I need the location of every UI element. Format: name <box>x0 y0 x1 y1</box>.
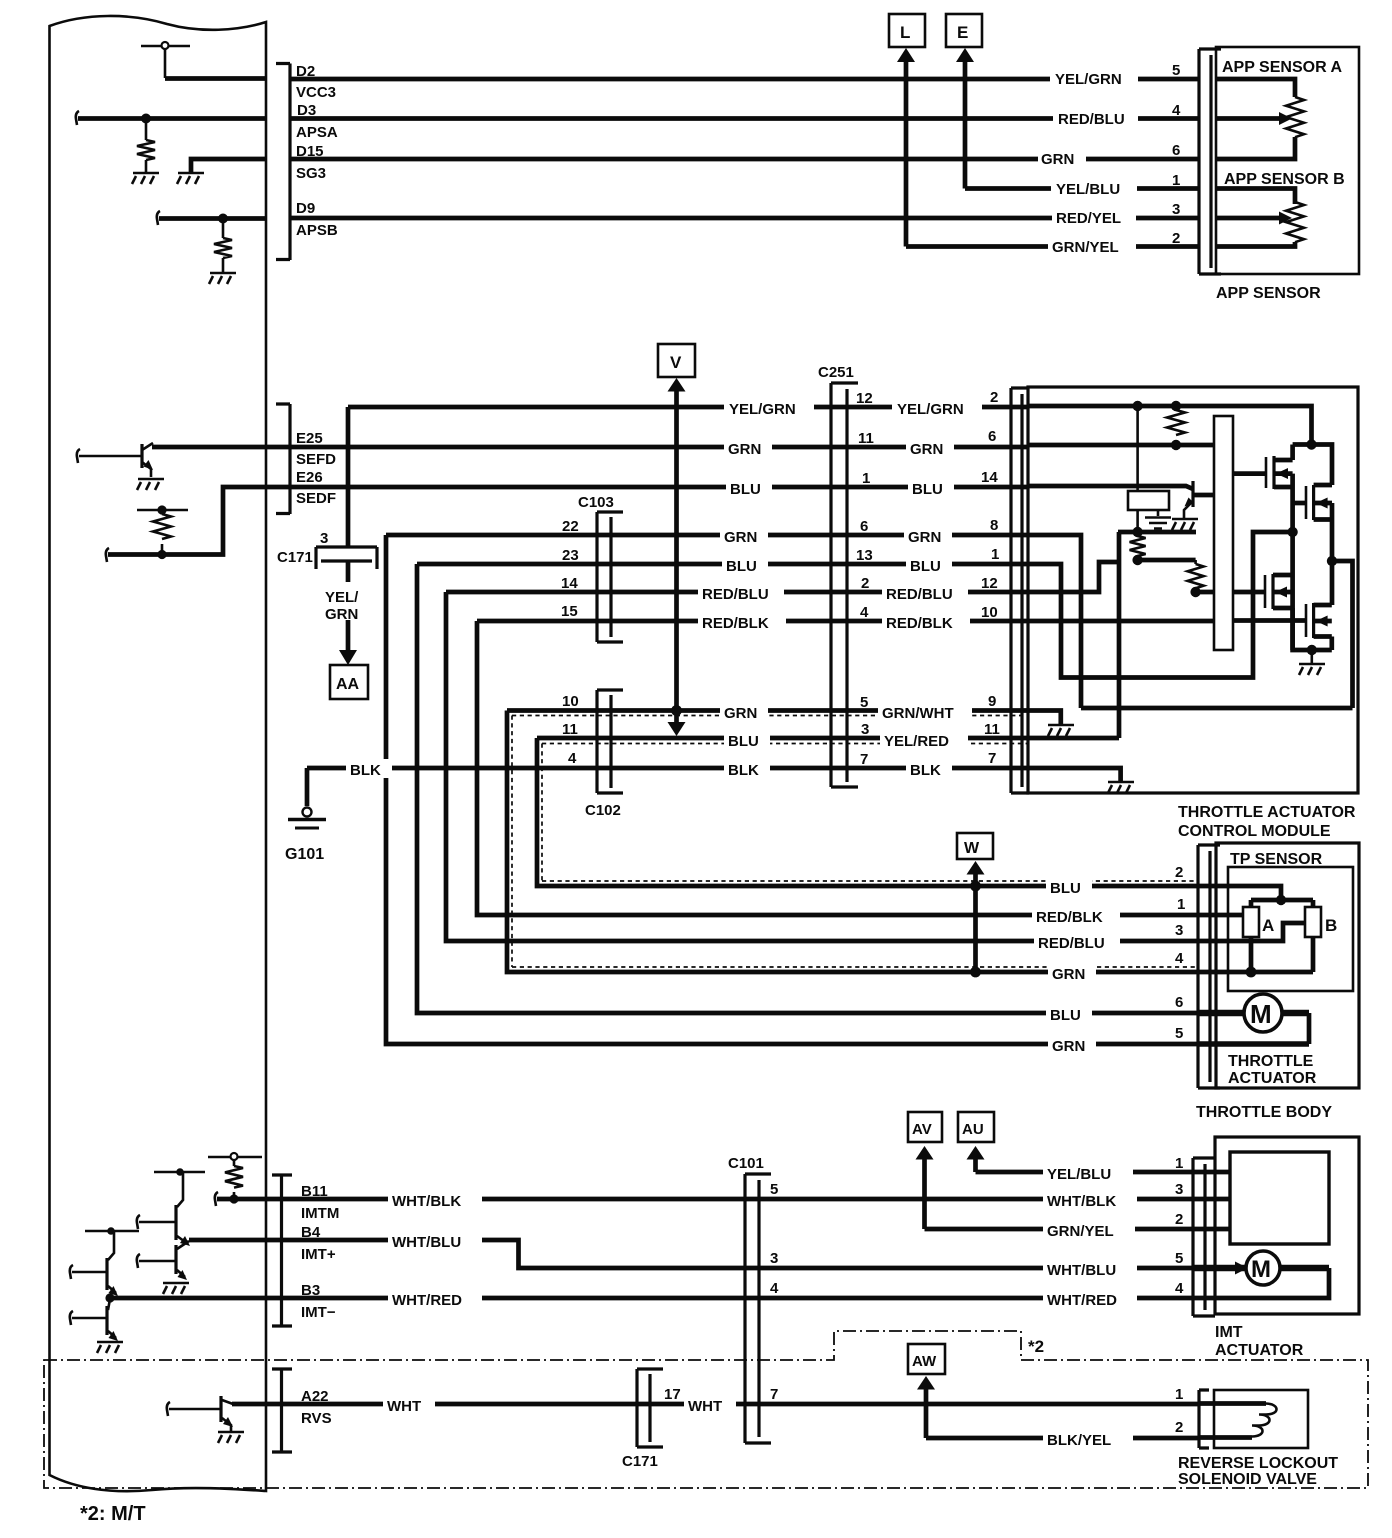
wire Q2 source down <box>1330 503 1335 605</box>
wire solenoid top <box>1199 1401 1266 1406</box>
wire to connector W with arrow <box>967 861 985 875</box>
svg-text:7: 7 <box>988 750 996 767</box>
svg-text:AU: AU <box>962 1121 984 1138</box>
svg-text:SEDF: SEDF <box>296 490 336 507</box>
label WHT/RED <box>1043 1289 1137 1308</box>
label BLU (motor pin6) <box>1046 1004 1092 1023</box>
TP SENSOR inner box <box>1228 867 1353 991</box>
svg-text:7: 7 <box>860 751 868 768</box>
MOSFET Q4 <box>1306 603 1332 638</box>
wiper arrow APP sensor B <box>1216 216 1281 221</box>
label GRN <box>904 526 952 545</box>
svg-text:AW: AW <box>912 1353 937 1370</box>
transistor T1 (IMTM driver) <box>137 1168 205 1246</box>
svg-text:C251: C251 <box>818 364 854 381</box>
connector AW box <box>908 1344 945 1374</box>
connector E box <box>946 14 982 47</box>
svg-text:10: 10 <box>562 693 579 710</box>
relay coil box <box>1128 491 1169 510</box>
label RED/BLK <box>1032 906 1120 925</box>
wire solenoid bottom <box>1199 1435 1252 1440</box>
transistor Q (SEFD driver) inside ECM <box>77 443 164 490</box>
svg-text:TP SENSOR: TP SENSOR <box>1230 851 1323 868</box>
svg-text:D9: D9 <box>296 200 315 217</box>
wire B3/IMT- row <box>109 1296 1192 1301</box>
resistor pull-down on APSB <box>222 219 225 273</box>
label BLU <box>726 478 772 497</box>
connector bracket control module <box>1011 388 1029 793</box>
wire motor output right <box>1332 561 1353 708</box>
connector bracket ECM B-group <box>272 1175 292 1326</box>
motor IMT actuator <box>1193 1251 1329 1298</box>
svg-text:2: 2 <box>990 389 998 406</box>
label GRN (TP pin4) <box>1048 963 1096 982</box>
node junction <box>1172 402 1181 411</box>
svg-text:*2: M/T: *2: M/T <box>80 1503 146 1525</box>
svg-text:THROTTLE BODY: THROTTLE BODY <box>1196 1104 1332 1121</box>
svg-text:4: 4 <box>1175 1280 1184 1297</box>
svg-text:5: 5 <box>1172 62 1180 79</box>
svg-text:WHT/BLU: WHT/BLU <box>1047 1262 1116 1279</box>
resistor R (module mid-left) <box>1136 534 1139 560</box>
connector V box <box>658 344 695 377</box>
svg-text:E25: E25 <box>296 430 323 447</box>
svg-text:22: 22 <box>562 518 579 535</box>
wire to connector V with arrows <box>668 378 686 392</box>
svg-text:GRN/WHT: GRN/WHT <box>882 705 954 722</box>
svg-text:*2: *2 <box>1028 1337 1044 1356</box>
svg-text:WHT/RED: WHT/RED <box>392 1292 462 1309</box>
node junction B3 <box>106 1294 114 1302</box>
svg-text:3: 3 <box>1175 1181 1183 1198</box>
svg-text:15: 15 <box>561 603 578 620</box>
wire YEL/GRN below C171 <box>346 561 351 582</box>
wire pin1 BLU path in module <box>1029 532 1293 678</box>
svg-text:10: 10 <box>981 604 998 621</box>
wire ground stub <box>1311 650 1314 663</box>
wire YEL/BLU to IMT pin 1 <box>976 1170 1193 1175</box>
svg-text:YEL/GRN: YEL/GRN <box>1055 71 1122 88</box>
svg-text:WHT: WHT <box>387 1398 421 1415</box>
wire to connector AV with arrow <box>916 1146 934 1160</box>
svg-text:2: 2 <box>861 575 869 592</box>
label GRN (shielded) <box>720 701 768 720</box>
svg-text:YEL/GRN: YEL/GRN <box>897 401 964 418</box>
label RED/BLK <box>882 612 970 631</box>
motor throttle actuator <box>1198 994 1309 1044</box>
wire pin9 GRN/WHT to ground <box>1029 711 1061 725</box>
node junction <box>1133 528 1142 537</box>
svg-text:E26: E26 <box>296 469 323 486</box>
transistor T4 <box>70 1299 123 1353</box>
svg-text:AV: AV <box>912 1121 932 1138</box>
connector L box <box>889 14 925 47</box>
label GRN/YEL <box>1043 1220 1135 1239</box>
svg-text:WHT/BLU: WHT/BLU <box>392 1234 461 1251</box>
svg-text:4: 4 <box>568 750 577 767</box>
svg-text:17: 17 <box>664 1386 681 1403</box>
node junction <box>1172 441 1181 450</box>
svg-text:C102: C102 <box>585 802 621 819</box>
label BLU (shielded) <box>724 729 770 748</box>
connector AV box <box>908 1112 942 1142</box>
svg-text:RED/BLK: RED/BLK <box>1036 909 1103 926</box>
svg-text:THROTTLE: THROTTLE <box>1228 1053 1314 1070</box>
svg-text:RED/YEL: RED/YEL <box>1056 210 1121 227</box>
svg-text:13: 13 <box>856 547 873 564</box>
svg-text:B4: B4 <box>301 1224 321 1241</box>
svg-text:C171: C171 <box>277 549 313 566</box>
wire pin8 GRN path in module <box>1029 535 1081 708</box>
label YEL/RED <box>880 729 968 748</box>
label GRN <box>906 438 954 457</box>
node junction <box>1307 440 1316 449</box>
wire BLU (shielded) C102 pin11 loop to TP pin 2 <box>537 738 1198 886</box>
MOSFET Q3 <box>1265 574 1293 609</box>
wire pin6 GRN row in module <box>1029 443 1214 448</box>
connector C171 (inline, top) <box>316 547 377 569</box>
connector AA box <box>330 665 368 699</box>
svg-text:8: 8 <box>990 517 998 534</box>
node VCC pull-up (IMTM) inside ECM <box>208 1153 262 1199</box>
svg-text:C101: C101 <box>728 1155 764 1172</box>
connector bracket ECM E-group <box>276 404 290 514</box>
svg-text:WHT/RED: WHT/RED <box>1047 1292 1117 1309</box>
svg-text:APSA: APSA <box>296 124 338 141</box>
wire GRN (shielded) C102 pin10 loop to TP pin 4 <box>507 711 1198 973</box>
wire mid horizontal link <box>1081 706 1353 711</box>
wire below relay box <box>1138 510 1158 532</box>
ground (SG3) <box>177 173 204 184</box>
wire E26/SEDF row with hook <box>106 548 109 562</box>
transistor T3 <box>70 1227 139 1296</box>
connector bracket APP sensor <box>1199 49 1221 274</box>
M/T option dash-dot boundary box with bump over AW <box>44 1331 1368 1488</box>
svg-text:GRN: GRN <box>908 529 941 546</box>
wire IMT pin2 stub <box>1193 1227 1230 1232</box>
svg-text:BLK: BLK <box>728 762 759 779</box>
svg-text:6: 6 <box>988 428 996 445</box>
svg-text:4: 4 <box>1172 102 1181 119</box>
wire pin7 BLK to ground <box>1029 768 1121 781</box>
wire gate Q2 <box>1293 501 1306 506</box>
label GRN/WHT <box>878 701 972 720</box>
node junction <box>1328 557 1337 566</box>
wire D9/APSB row inside ECM with hook <box>157 211 160 225</box>
wire GRN/YEL connector L to APP pin 2 <box>906 244 1199 249</box>
svg-text:SG3: SG3 <box>296 165 326 182</box>
wire B11/IMTM row with hook <box>215 1192 218 1206</box>
resistor pull-down on APSA <box>145 119 148 173</box>
label GRN (motor pin5) <box>1048 1035 1096 1054</box>
wire to connector L with arrow <box>904 60 909 247</box>
wire Q1 drain to top <box>1290 445 1295 461</box>
node junction <box>1133 402 1142 411</box>
label GRN <box>1038 147 1086 167</box>
svg-text:BLU: BLU <box>1050 880 1081 897</box>
svg-text:APP SENSOR: APP SENSOR <box>1216 285 1321 302</box>
wire TP top rail <box>1251 900 1313 907</box>
transistor T2 <box>137 1241 189 1294</box>
wire GRN/YEL to IMT pin 2 <box>925 1227 1193 1232</box>
wire SG3 branch inside ECM <box>191 159 266 172</box>
node junction <box>1288 528 1297 537</box>
wire BLK to ground G101 <box>307 768 1029 806</box>
svg-text:1: 1 <box>862 470 870 487</box>
label BLU <box>722 555 768 574</box>
wire to connector AW with arrow <box>917 1376 935 1390</box>
wire pin14 BLU row in module <box>1029 486 1193 489</box>
svg-text:6: 6 <box>1172 142 1180 159</box>
wire YEL/GRN D2 to APP pin 5 <box>290 77 1199 82</box>
svg-text:B11: B11 <box>301 1183 328 1200</box>
svg-text:SEFD: SEFD <box>296 451 336 468</box>
wire TP pin2 feed <box>1198 886 1281 900</box>
label YEL/GRN (left of C251) <box>724 398 814 417</box>
svg-text:IMT−: IMT− <box>301 1304 336 1321</box>
wire IMT pin3 stub <box>1193 1197 1230 1202</box>
wire TP pin3 wiper B <box>1198 923 1305 941</box>
svg-text:GRN/YEL: GRN/YEL <box>1047 1223 1114 1240</box>
wire pin10 RED/BLK row to gate Q4 <box>1029 618 1306 623</box>
wire GRN D15 to APP pin 6 <box>290 157 1199 162</box>
connector bracket ECM D-group <box>276 64 290 261</box>
svg-text:SOLENOID VALVE: SOLENOID VALVE <box>1178 1471 1317 1488</box>
label YEL/GRN (right of C251) <box>892 398 982 417</box>
wire between resistors <box>1138 558 1196 563</box>
wire gate Q1 from IC <box>1233 471 1266 476</box>
svg-text:1: 1 <box>1177 896 1185 913</box>
svg-text:3: 3 <box>770 1250 778 1267</box>
svg-text:C171: C171 <box>622 1453 658 1470</box>
potentiometer APP sensor B <box>1216 189 1295 247</box>
label WHT/RED <box>388 1289 482 1308</box>
resistor (SEDF sense) inside ECM <box>137 506 188 559</box>
svg-text:BLK/YEL: BLK/YEL <box>1047 1432 1111 1449</box>
svg-text:BLU: BLU <box>728 733 759 750</box>
svg-text:ACTUATOR: ACTUATOR <box>1228 1070 1317 1087</box>
ground (APSA resistor) <box>132 173 159 184</box>
svg-text:12: 12 <box>981 575 998 592</box>
svg-text:WHT/BLK: WHT/BLK <box>392 1193 461 1210</box>
wire resistor header in module <box>1118 530 1196 535</box>
wire BLU C103 pin23 loop to TP pin 6 <box>417 564 1198 1013</box>
svg-text:BLU: BLU <box>912 481 943 498</box>
svg-text:2: 2 <box>1172 230 1180 247</box>
wire BLU row to C251 pin 1 / module pin 14 <box>831 485 1029 490</box>
label BLK <box>346 759 392 778</box>
wire Q4 source to ground node <box>1329 637 1334 651</box>
node junction <box>1191 588 1200 597</box>
label RED/BLU <box>882 583 968 602</box>
svg-text:GRN: GRN <box>728 441 761 458</box>
wire D3/APSA row inside ECM with hook <box>76 111 79 125</box>
svg-text:5: 5 <box>1175 1025 1183 1042</box>
svg-text:APSB: APSB <box>296 222 338 239</box>
svg-text:6: 6 <box>860 518 868 535</box>
label YEL/GRN <box>1050 67 1138 87</box>
node junction W on BLU shield <box>971 882 980 891</box>
svg-text:IMT: IMT <box>1215 1324 1243 1341</box>
svg-text:2: 2 <box>1175 864 1183 881</box>
potentiometer APP sensor A <box>1216 79 1295 159</box>
connector C102 <box>597 690 623 793</box>
ground (H-bridge) <box>1299 664 1325 675</box>
node junction <box>1246 967 1256 977</box>
label RED/BLU <box>698 583 784 602</box>
THROTTLE ACTUATOR CONTROL MODULE box <box>1028 387 1358 793</box>
label GRN/YEL <box>1048 235 1136 255</box>
svg-text:GRN: GRN <box>325 606 358 623</box>
connector bracket throttle body <box>1198 845 1220 1088</box>
node junction V line on GRN row <box>672 706 681 715</box>
THROTTLE BODY box <box>1216 843 1359 1088</box>
svg-text:YEL/: YEL/ <box>325 589 359 606</box>
wire RED/BLU C103 pin14 loop to TP pin 3 <box>446 592 1198 941</box>
svg-text:2: 2 <box>1175 1419 1183 1436</box>
wire RED/BLK C103 pin15 loop to TP pin 1 <box>477 621 1198 915</box>
shield dashed line (GRN wire) <box>512 716 1198 968</box>
MOSFET Q2 <box>1306 485 1332 520</box>
svg-text:ACTUATOR: ACTUATOR <box>1215 1342 1304 1359</box>
svg-text:GRN: GRN <box>910 441 943 458</box>
svg-text:GRN: GRN <box>1052 1038 1085 1055</box>
svg-text:23: 23 <box>562 547 579 564</box>
svg-text:M: M <box>1250 999 1272 1029</box>
svg-text:GRN: GRN <box>1041 151 1074 168</box>
svg-text:W: W <box>964 840 980 857</box>
shield dashed line (BLU wire) <box>542 744 1198 882</box>
ground (signal, relay) <box>1145 518 1171 529</box>
wire YEL/BLU connector E to APP pin 1 <box>965 186 1199 191</box>
IC block <box>1214 416 1233 650</box>
label WHT/BLU <box>1043 1259 1137 1278</box>
svg-text:9: 9 <box>988 693 996 710</box>
ground (pin9) <box>1048 725 1074 736</box>
node junction D3 <box>142 114 150 122</box>
connector bracket ECM A22 <box>272 1369 292 1452</box>
connector C103 <box>597 512 623 642</box>
svg-text:3: 3 <box>320 530 328 547</box>
svg-text:5: 5 <box>860 694 868 711</box>
svg-text:WHT: WHT <box>688 1398 722 1415</box>
svg-text:1: 1 <box>1175 1155 1183 1172</box>
label WHT/BLU <box>388 1231 482 1250</box>
ground G101 <box>303 808 312 817</box>
svg-text:YEL/RED: YEL/RED <box>884 733 949 750</box>
wire B4/IMT+ row <box>189 1240 1192 1268</box>
wire YEL/GRN row to C251 pin 12 <box>348 405 1029 410</box>
svg-text:B: B <box>1325 916 1337 935</box>
wire TP bottom rail <box>1198 937 1313 972</box>
wire GRN C103 pin22 loop to TP pin 5 <box>386 535 1198 1044</box>
wire H-bridge upper link <box>1293 445 1332 486</box>
svg-text:YEL/BLU: YEL/BLU <box>1047 1166 1111 1183</box>
wire Q1 source chain down <box>1290 474 1295 650</box>
svg-text:4: 4 <box>1175 950 1184 967</box>
svg-text:C103: C103 <box>578 494 614 511</box>
wire BLK/YEL to solenoid pin 2 <box>926 1436 1200 1441</box>
svg-text:E: E <box>957 23 968 42</box>
node junction (bridge ground) <box>1307 646 1316 655</box>
svg-text:YEL/BLU: YEL/BLU <box>1056 181 1120 198</box>
svg-text:BLK: BLK <box>350 762 381 779</box>
svg-text:3: 3 <box>1172 201 1180 218</box>
label WHT <box>383 1395 435 1414</box>
label GRN <box>720 526 768 545</box>
node junction <box>1277 896 1286 905</box>
transistor (module driver) <box>1172 481 1214 530</box>
connector AU box <box>958 1112 994 1142</box>
svg-text:1: 1 <box>991 546 999 563</box>
ECM box (wavy top and bottom) <box>50 16 267 1491</box>
label GRN <box>724 438 772 457</box>
svg-text:GRN: GRN <box>724 705 757 722</box>
label YEL/BLU <box>1051 177 1137 197</box>
wire GRN row to C251 pin 11 / module pin 6 <box>831 445 1029 450</box>
svg-text:5: 5 <box>770 1181 778 1198</box>
svg-text:14: 14 <box>561 575 578 592</box>
node VCC3 supply inside ECM <box>141 42 190 78</box>
svg-text:12: 12 <box>856 390 873 407</box>
transistor T5 (RVS driver) <box>167 1396 244 1443</box>
svg-text:A: A <box>1262 916 1274 935</box>
svg-text:11: 11 <box>984 721 1000 738</box>
ground (APSB resistor) <box>209 273 236 284</box>
svg-text:14: 14 <box>981 469 998 486</box>
resistor R (module top) <box>1175 406 1178 445</box>
svg-text:IMT+: IMT+ <box>301 1246 336 1263</box>
svg-text:3: 3 <box>1175 922 1183 939</box>
wire RED/BLU D3 to APP pin 4 <box>290 116 1199 121</box>
wire TP pin1 wiper A <box>1198 913 1243 918</box>
svg-text:5: 5 <box>1175 1250 1183 1267</box>
svg-text:RED/BLU: RED/BLU <box>1058 111 1125 128</box>
svg-text:WHT/BLK: WHT/BLK <box>1047 1193 1116 1210</box>
resistor R (module mid-right) <box>1194 560 1197 592</box>
svg-text:11: 11 <box>858 430 874 447</box>
REVERSE LOCKOUT SOLENOID VALVE box <box>1214 1390 1308 1448</box>
wire A22/RVS WHT row <box>232 1402 1200 1407</box>
svg-text:VCC3: VCC3 <box>296 84 336 101</box>
svg-text:RED/BLU: RED/BLU <box>1038 935 1105 952</box>
svg-text:CONTROL MODULE: CONTROL MODULE <box>1178 823 1331 840</box>
svg-text:GRN/YEL: GRN/YEL <box>1052 239 1119 256</box>
label WHT <box>684 1395 736 1414</box>
svg-text:V: V <box>670 353 682 372</box>
svg-text:2: 2 <box>1175 1211 1183 1228</box>
wire RED/YEL D9 to APP pin 3 <box>290 216 1199 221</box>
wire arrow into AA <box>346 620 351 651</box>
connector bracket solenoid valve <box>1199 1390 1209 1448</box>
svg-text:BLU: BLU <box>726 558 757 575</box>
svg-text:7: 7 <box>770 1386 778 1403</box>
label RED/YEL <box>1052 206 1136 226</box>
connector bracket IMT actuator <box>1193 1158 1215 1316</box>
svg-text:L: L <box>900 23 910 42</box>
wire vertical link <box>1117 532 1122 738</box>
label RED/BLU <box>1034 932 1120 951</box>
svg-text:BLU: BLU <box>1050 1007 1081 1024</box>
svg-text:AA: AA <box>336 676 360 693</box>
svg-text:BLU: BLU <box>730 481 761 498</box>
label WHT/BLK <box>388 1190 482 1209</box>
label BLU (TP pin2) <box>1046 877 1092 896</box>
connector C251 <box>831 383 858 787</box>
svg-text:GRN: GRN <box>1052 966 1085 983</box>
svg-text:RED/BLU: RED/BLU <box>886 586 953 603</box>
svg-text:THROTTLE ACTUATOR: THROTTLE ACTUATOR <box>1178 804 1356 821</box>
